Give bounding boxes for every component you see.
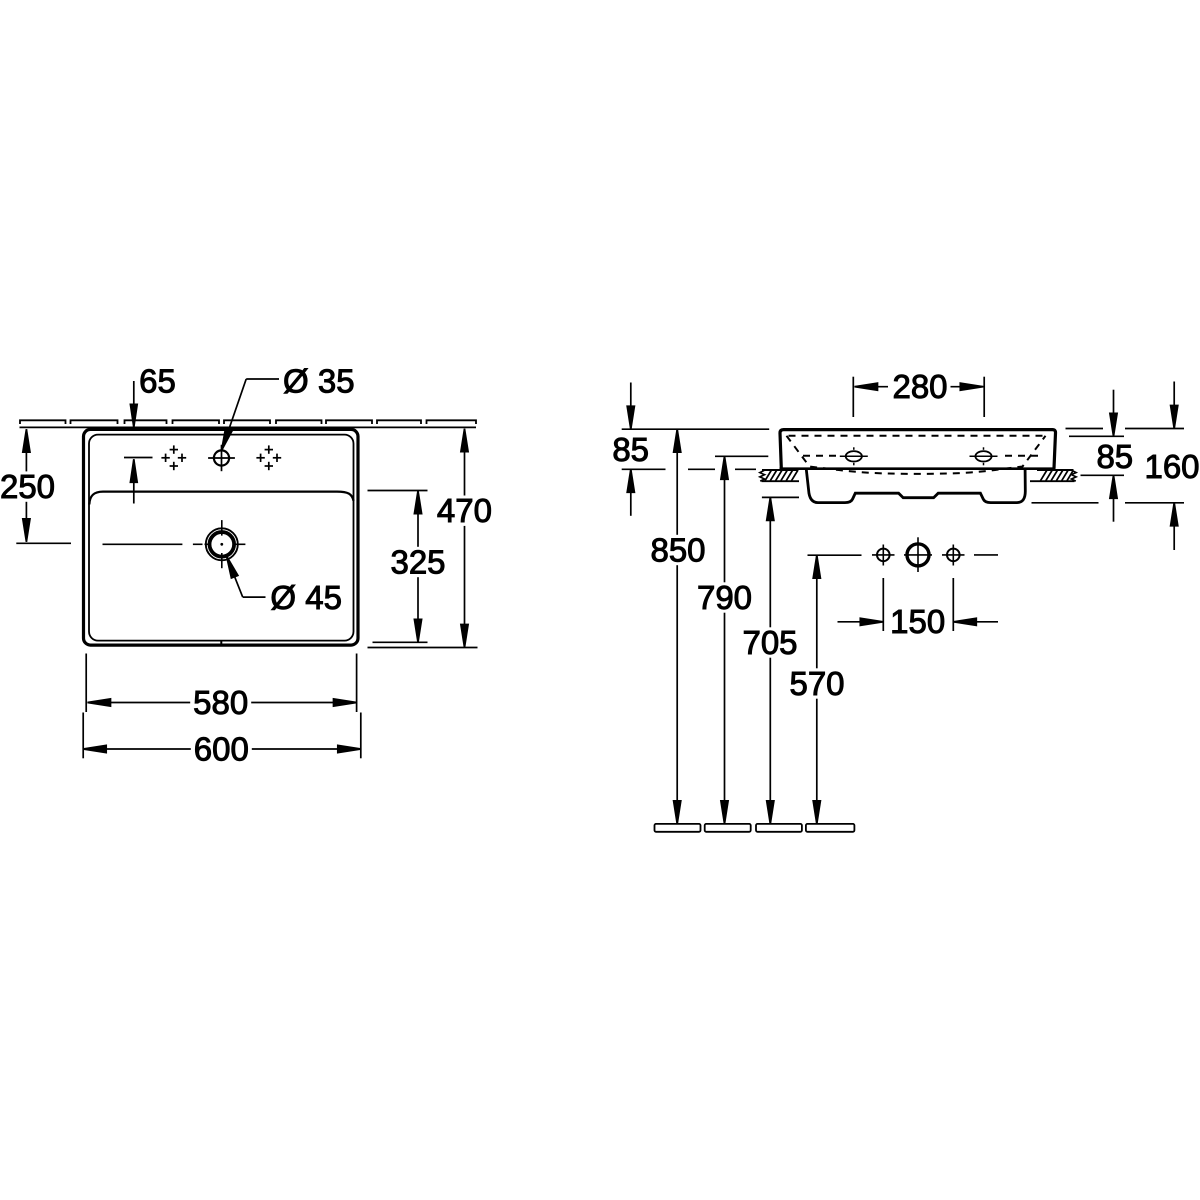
svg-text:325: 325 xyxy=(390,544,445,581)
dimension 705 (underside above floor) xyxy=(762,497,799,824)
extension line basin top level right xyxy=(1066,428,1185,430)
svg-text:85: 85 xyxy=(612,431,649,468)
svg-text:150: 150 xyxy=(890,603,945,640)
hidden line right dashed xyxy=(1005,455,1038,457)
leader and label Ø 45 xyxy=(227,556,266,597)
wall section hatch left xyxy=(760,470,799,481)
tap hole small left (front) xyxy=(872,545,895,566)
tap hole Ø35 (top view) xyxy=(208,445,235,471)
dimension 85 left (rim height) xyxy=(627,383,634,516)
dimension 570 (tap centerline above floor) xyxy=(808,555,862,824)
optional tap hole cross right (top view) xyxy=(256,445,281,470)
hidden bowl outline dashed xyxy=(787,436,1046,474)
svg-text:Ø 45: Ø 45 xyxy=(270,579,342,616)
svg-text:790: 790 xyxy=(697,579,752,616)
svg-text:850: 850 xyxy=(650,532,705,569)
floor line (tiled) xyxy=(655,824,855,832)
dimension 580 (inner width) xyxy=(86,654,356,713)
svg-text:Ø 35: Ø 35 xyxy=(283,363,355,400)
drain hole Ø45 (top view) xyxy=(103,520,246,568)
svg-text:280: 280 xyxy=(892,368,947,405)
leader and label Ø 35 xyxy=(222,379,279,450)
tap centerline segment right xyxy=(974,554,998,556)
hidden line left dashed xyxy=(803,455,836,457)
dimension 850 (rim height above floor) xyxy=(674,429,681,824)
dimension 150 (side tap hole spacing) xyxy=(838,578,999,631)
svg-text:65: 65 xyxy=(139,363,176,400)
tap hole center (front) xyxy=(904,537,932,572)
svg-text:470: 470 xyxy=(437,492,492,529)
wall line (top view, tiled) xyxy=(20,420,477,427)
dimension 160 (total height of basin) xyxy=(1171,382,1178,551)
fixing hole left (side view) xyxy=(840,447,868,465)
hidden inner rim dashed line xyxy=(789,435,1049,437)
dimension 85 right (rim thickness) xyxy=(1110,390,1117,522)
washbasin rim bottom edge (side view) xyxy=(780,467,1056,470)
dimension 325 (ledge to front) xyxy=(368,491,428,643)
washbasin inner rim line (top view) xyxy=(89,435,354,641)
svg-text:580: 580 xyxy=(193,684,248,721)
svg-text:85: 85 xyxy=(1096,438,1133,475)
svg-text:570: 570 xyxy=(789,665,844,702)
extension line front rim level right xyxy=(1069,435,1124,437)
optional tap hole cross left (top view) xyxy=(161,445,186,470)
extension line basin top level xyxy=(622,428,770,430)
svg-text:705: 705 xyxy=(742,624,797,661)
wall section hatch right xyxy=(1030,470,1076,481)
extension line underside level right xyxy=(1032,502,1185,504)
dimension 280 (fixing hole spacing) xyxy=(853,377,984,417)
basin ledge line (top view) xyxy=(89,492,353,505)
washbasin side profile outline xyxy=(780,430,1056,469)
extension line rim underside level xyxy=(622,468,756,470)
dimension 65 (tap hole offset) xyxy=(124,381,153,504)
dimension 600 (overall width) xyxy=(83,713,361,759)
svg-text:600: 600 xyxy=(194,731,249,768)
dimension 790 (fixing holes above floor) xyxy=(715,456,768,824)
tap hole small right (front) xyxy=(942,545,965,566)
fixing hole right (side view) xyxy=(970,447,998,465)
washbasin underside profile xyxy=(806,470,1025,503)
svg-text:250: 250 xyxy=(0,468,55,505)
washbasin outer outline (top view) xyxy=(84,429,359,645)
svg-text:160: 160 xyxy=(1144,448,1199,485)
dimension 250 (wall to drain center) xyxy=(16,429,71,543)
bottom center mark (top view) xyxy=(220,641,222,646)
extension line hatch bottom right xyxy=(1081,474,1125,476)
dimension 470 (overall depth) xyxy=(368,429,478,648)
